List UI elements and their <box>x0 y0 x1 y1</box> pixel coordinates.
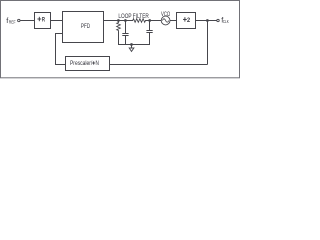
oscillator VCO (circle with sine) <box>161 16 170 25</box>
node fREF label <box>6 16 16 25</box>
wire R1 to bottom rail <box>118 32 120 45</box>
svg-text:CLK: CLK <box>223 19 229 24</box>
wire PFD output to loop filter <box>104 20 133 22</box>
svg-text:R: R <box>42 17 45 24</box>
junction dot B <box>124 19 127 22</box>
wire ÷R to PFD <box>51 20 63 22</box>
wire feedback vertical from tap <box>207 21 209 65</box>
border frame (decorative) <box>1 1 240 78</box>
divider ÷2 block <box>177 13 196 29</box>
capacitor C2 shunt <box>146 21 152 45</box>
wire fREF to divide-by-R <box>20 20 34 22</box>
wire ÷2 to output terminal <box>196 20 217 22</box>
svg-text:2: 2 <box>187 17 190 24</box>
junction dot D on rail <box>130 43 133 46</box>
divider ÷R block <box>35 13 51 29</box>
resistor R1 shunt (vertical zigzag) <box>117 21 121 32</box>
svg-text:Prescaler/: Prescaler/ <box>70 61 93 67</box>
wire prescaler output to PFD feedback input <box>56 34 66 65</box>
ground <box>129 45 134 52</box>
wire bottom rail of loop filter <box>118 44 150 46</box>
svg-text:PFD: PFD <box>81 23 90 30</box>
wire R2 to node C <box>147 20 162 22</box>
svg-text:REF: REF <box>9 19 16 24</box>
terminal fCLK output <box>217 19 219 21</box>
divider Prescaler/÷N block <box>66 57 110 71</box>
op PFD block U1 <box>63 12 104 43</box>
junction dot A <box>117 19 120 22</box>
svg-text:N: N <box>96 61 99 67</box>
resistor R2 series (horizontal zigzag) <box>132 19 147 23</box>
wire VCO to ÷2 <box>170 20 177 22</box>
capacitor C1 shunt <box>122 21 128 45</box>
junction dot E (feedback tap) <box>206 19 209 22</box>
junction dot C <box>148 19 151 22</box>
terminal fREF input <box>18 19 20 21</box>
wire feedback bottom rail <box>110 64 208 66</box>
node fCLK label <box>221 15 229 24</box>
